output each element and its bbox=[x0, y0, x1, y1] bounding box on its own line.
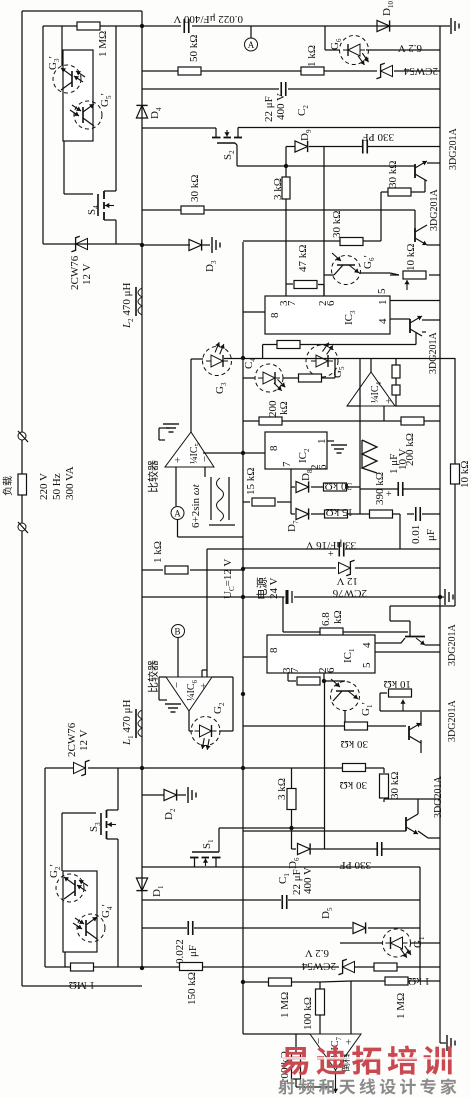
wire A down bbox=[177, 520, 179, 538]
IC IC1 box bbox=[267, 635, 375, 673]
resistor 15k D7 bbox=[325, 510, 348, 518]
svg-text:A: A bbox=[174, 509, 181, 519]
svg-text:+: + bbox=[383, 398, 395, 404]
svg-text:300 VA: 300 VA bbox=[64, 466, 76, 500]
resistor 47k bbox=[294, 281, 317, 289]
svg-text:kΩ: kΩ bbox=[278, 401, 290, 415]
transistor T5 3DG201A bbox=[405, 817, 407, 831]
resistor 15k2 bbox=[252, 498, 275, 506]
optocoupler box bottom bbox=[63, 871, 97, 952]
resistor IC1 bottom bbox=[297, 677, 320, 685]
resistor fb1 bbox=[392, 365, 400, 378]
wire v x=420 bbox=[419, 867, 421, 981]
wire box bottom stub bbox=[64, 952, 66, 967]
mosfet S1 bbox=[192, 851, 219, 853]
svg-text:3DG201A: 3DG201A bbox=[448, 128, 459, 170]
svg-text:1: 1 bbox=[377, 300, 389, 306]
wire S3 source down bbox=[117, 839, 119, 967]
wire IC5 minus down bbox=[204, 467, 206, 477]
svg-text:30 kΩ: 30 kΩ bbox=[325, 480, 352, 492]
wire S4 source bbox=[115, 220, 117, 244]
wire IC4 plus down bbox=[383, 406, 385, 421]
wire outer bottom bbox=[22, 985, 142, 987]
capacitor 0.022uF/400V bbox=[183, 19, 185, 33]
wire row y=597 bbox=[142, 596, 285, 598]
resistor 10k pot bbox=[403, 271, 426, 279]
svg-text:1 MΩ: 1 MΩ bbox=[69, 979, 95, 991]
optocoupler box top bbox=[63, 50, 93, 141]
svg-text:6.2 V: 6.2 V bbox=[305, 947, 329, 959]
source A circle bbox=[171, 507, 184, 520]
LED G1 bbox=[383, 929, 411, 957]
triangle wave icon bbox=[362, 440, 377, 473]
wire IC3 pin1 to bus bbox=[390, 300, 440, 302]
svg-text:1: 1 bbox=[316, 439, 328, 445]
wire v x=45 bottom bbox=[44, 768, 46, 967]
svg-text:G5′: G5′ bbox=[99, 93, 113, 107]
phototransistor G2p bbox=[56, 874, 84, 902]
terminal plug top bbox=[18, 432, 26, 440]
zener 2CW76 mid bbox=[339, 560, 355, 575]
node dot 243,982 bbox=[241, 980, 245, 984]
svg-text:0.022 μF/400 V: 0.022 μF/400 V bbox=[173, 13, 243, 25]
wire G3 left bbox=[191, 358, 203, 360]
node dot 324,681 bbox=[322, 679, 326, 683]
diode D10 bbox=[377, 20, 390, 31]
svg-text:7: 7 bbox=[281, 461, 293, 467]
diode D6 bbox=[298, 843, 311, 854]
wire row y=71 bbox=[142, 70, 178, 72]
svg-text:6: 6 bbox=[325, 667, 337, 673]
svg-text:3DG201A: 3DG201A bbox=[447, 700, 458, 742]
wire IC6 out bbox=[188, 711, 190, 731]
diode D8 bbox=[296, 481, 309, 492]
LED G6 bbox=[340, 36, 369, 65]
wire outer left bbox=[21, 11, 23, 986]
svg-text:8: 8 bbox=[269, 312, 281, 318]
svg-text:−: − bbox=[171, 682, 183, 688]
capacitor 330pF top bbox=[362, 140, 364, 154]
wire outer top bbox=[22, 10, 142, 12]
LED C4 bbox=[255, 364, 283, 392]
resistor 1k top bbox=[301, 67, 324, 75]
svg-text:G2′: G2′ bbox=[48, 864, 62, 878]
wire 330pF bot row bbox=[311, 848, 377, 850]
svg-text:22 μF: 22 μF bbox=[263, 96, 275, 122]
svg-text:10 V: 10 V bbox=[397, 448, 409, 470]
node dot 291,828 bbox=[289, 826, 293, 830]
wire IC1 pin5 right bbox=[375, 651, 440, 653]
ground D2 bbox=[188, 787, 196, 803]
ammeter A top bbox=[250, 26, 252, 38]
svg-text:10 kΩ: 10 kΩ bbox=[405, 244, 417, 271]
inductor L1 bbox=[138, 710, 142, 737]
wire row y=570 bbox=[142, 569, 163, 571]
wire row y=967 bbox=[45, 966, 72, 968]
phototransistor G4p bbox=[77, 914, 105, 942]
resistor 390k bbox=[370, 510, 393, 518]
wire D9 row y=146.5 bbox=[286, 146, 295, 148]
ground top right bbox=[440, 25, 450, 27]
wire IC5 out feedback bbox=[203, 452, 243, 454]
svg-text:−: − bbox=[355, 398, 367, 404]
wire IC4 minus down bbox=[359, 359, 361, 367]
resistor 10k right bbox=[451, 464, 460, 484]
wire 30k T1 row y=192 bbox=[381, 191, 389, 193]
node dot 243,597 bbox=[241, 595, 245, 599]
svg-text:30 kΩ: 30 kΩ bbox=[341, 738, 368, 750]
svg-text:12 V: 12 V bbox=[78, 729, 90, 751]
wire IC1 pin8 left bbox=[243, 656, 267, 658]
resistor 50k bbox=[178, 67, 201, 75]
LED G5 bbox=[306, 345, 338, 377]
LED G2 bbox=[191, 717, 220, 746]
svg-text:47 kΩ: 47 kΩ bbox=[297, 245, 309, 272]
resistor 3k bottom bbox=[287, 789, 296, 810]
svg-text:3 kΩ: 3 kΩ bbox=[272, 178, 284, 200]
svg-text:+: + bbox=[343, 1039, 355, 1045]
svg-text:100 kΩ: 100 kΩ bbox=[302, 997, 314, 1030]
wire row y=982 left bbox=[243, 981, 269, 983]
svg-text:+: + bbox=[172, 457, 184, 463]
resistor 1k bot bbox=[374, 963, 397, 971]
resistor 30k row768 bbox=[343, 764, 366, 772]
wire IC5 plus down bbox=[175, 467, 177, 506]
zener 2CW76 top bbox=[71, 236, 87, 251]
capacitor 0.01uF bbox=[415, 507, 417, 521]
zener 2CW54 top bbox=[376, 63, 392, 78]
meter B circle bbox=[172, 625, 185, 638]
transistor T1 3DG201A bbox=[414, 164, 416, 178]
wire v x=43 bbox=[42, 26, 44, 244]
resistor 200k left bbox=[259, 417, 282, 425]
wire v x=283 bbox=[282, 597, 284, 632]
label comparator cn bbox=[148, 460, 158, 492]
svg-text:330 PF: 330 PF bbox=[363, 131, 395, 143]
wire IC3 pin4 stub bbox=[390, 318, 410, 320]
svg-text:7: 7 bbox=[289, 667, 301, 673]
opamp IC6 bbox=[166, 677, 212, 711]
wire S3 gate bbox=[62, 812, 96, 814]
wire IC4 base row bbox=[347, 405, 360, 407]
zener 2CW54 bot bbox=[338, 959, 354, 974]
diode D2 bbox=[164, 789, 177, 800]
svg-text:1 MΩ: 1 MΩ bbox=[97, 31, 109, 57]
node dot 243,358 bbox=[241, 356, 245, 360]
transistor T2 3DG201A bbox=[414, 228, 416, 242]
svg-text:3DG201A: 3DG201A bbox=[429, 189, 440, 231]
svg-text:10 kΩ: 10 kΩ bbox=[384, 678, 411, 690]
capacitor 33uF bbox=[338, 543, 340, 557]
svg-text:μF: μF bbox=[187, 945, 199, 957]
wire row y=900 bbox=[142, 899, 281, 901]
svg-text:μF: μF bbox=[425, 529, 437, 541]
node dot at 142,26 bbox=[140, 24, 144, 28]
mosfet S4 bbox=[97, 194, 99, 216]
node dot 243,569 bbox=[241, 567, 245, 571]
svg-text:1 MΩ: 1 MΩ bbox=[395, 993, 407, 1019]
wire 47k right bbox=[318, 284, 324, 286]
svg-text:50 Hz: 50 Hz bbox=[51, 473, 63, 500]
svg-text:L2 470 μH: L2 470 μH bbox=[121, 282, 135, 329]
wire G6 branch bbox=[324, 26, 326, 50]
wire D8 row y=487 bbox=[291, 486, 295, 488]
resistor 10k T4 bbox=[389, 689, 412, 697]
wire S4 drain bbox=[115, 26, 117, 191]
wire row y=89 bbox=[142, 88, 279, 90]
ground IC5 bbox=[159, 439, 165, 441]
svg-text:30 kΩ: 30 kΩ bbox=[387, 161, 399, 188]
node dot 142,768 bbox=[140, 766, 144, 770]
resistor 30k T4row bbox=[345, 722, 368, 730]
wire row y=549 bbox=[207, 548, 338, 550]
svg-text:3DG201A: 3DG201A bbox=[447, 624, 458, 666]
svg-text:1 kΩ: 1 kΩ bbox=[306, 45, 318, 67]
svg-text:6.8: 6.8 bbox=[320, 612, 332, 626]
opamp IC5 bbox=[165, 432, 214, 467]
wire G1p down bbox=[344, 710, 346, 726]
mosfet S2 bbox=[217, 142, 235, 144]
svg-text:330 PF: 330 PF bbox=[340, 859, 372, 871]
svg-text:A: A bbox=[248, 40, 255, 50]
wire row y=928 bbox=[142, 927, 187, 929]
wire S2 gate down bbox=[235, 143, 237, 145]
capacitor 330pF bot bbox=[376, 842, 378, 856]
wire 20k left elbow bbox=[262, 345, 264, 359]
wire row y=981 bbox=[351, 980, 386, 982]
wire 15k row y=502 bbox=[243, 501, 250, 503]
wire T0 collector loop bbox=[415, 332, 417, 345]
wire row y=210 bbox=[142, 209, 184, 211]
svg-text:24 V: 24 V bbox=[268, 577, 280, 599]
wire IC3 pin8 bbox=[243, 311, 265, 313]
diode D3 bbox=[189, 239, 202, 250]
wire S1 gate up bbox=[218, 828, 220, 852]
wire G1 row y=942 bbox=[340, 942, 382, 944]
svg-text:−: − bbox=[199, 456, 211, 462]
svg-text:12 V: 12 V bbox=[81, 263, 93, 285]
svg-text:10 kΩ: 10 kΩ bbox=[459, 461, 471, 488]
wire C4 G5 row bbox=[243, 377, 255, 379]
wire row y=166 bbox=[237, 165, 415, 167]
wire S1 gate row y=827 bbox=[219, 827, 325, 829]
wire G6p leads bbox=[324, 274, 334, 276]
svg-text:3DG201A: 3DG201A bbox=[428, 332, 439, 374]
wire 1M row bbox=[43, 25, 78, 27]
wire v x=381 bbox=[380, 192, 382, 241]
diode D5 bbox=[353, 922, 366, 933]
sine icon bbox=[210, 477, 212, 520]
opamp IC4 bbox=[347, 372, 395, 406]
resistor 30k vert bbox=[380, 774, 389, 798]
capacitor C2 22uF/400V bbox=[280, 82, 282, 96]
resistor 20k bbox=[277, 341, 300, 349]
transistor T0 3DG201A bbox=[409, 319, 411, 333]
ground bottom right bbox=[440, 1042, 446, 1044]
svg-text:150 kΩ: 150 kΩ bbox=[186, 972, 198, 1005]
wire D7 row y=514 bbox=[291, 513, 295, 515]
label comparator2 cn bbox=[148, 660, 158, 692]
svg-text:0.022: 0.022 bbox=[174, 939, 186, 964]
wire 10k loop top bbox=[390, 605, 455, 607]
ground mid right bbox=[440, 596, 444, 598]
resistor 1k mid bbox=[165, 566, 188, 574]
wire row y=26 with cap bbox=[142, 25, 181, 27]
phototransistor G3p bbox=[53, 65, 81, 93]
resistor 30k row241 bbox=[340, 238, 363, 246]
svg-text:400 V: 400 V bbox=[275, 93, 287, 120]
svg-text:1 MΩ: 1 MΩ bbox=[279, 992, 291, 1018]
IC IC3 box bbox=[265, 296, 390, 334]
wire row y=831 bbox=[243, 830, 406, 832]
svg-text:4: 4 bbox=[361, 642, 373, 648]
svg-text:7: 7 bbox=[286, 300, 298, 306]
wire IC2 pins down bbox=[290, 469, 292, 514]
resistor 30k row210 bbox=[181, 206, 204, 214]
resistor fb2 bbox=[392, 385, 400, 395]
LED G6p bbox=[332, 256, 361, 285]
svg-text:6: 6 bbox=[317, 464, 329, 470]
svg-text:B: B bbox=[175, 627, 181, 637]
wire IC7 out arrow bbox=[335, 1070, 337, 1093]
resistor 200k right bbox=[401, 417, 424, 425]
svg-text:−: − bbox=[313, 1038, 325, 1044]
wire row y=867 S1 source bbox=[142, 866, 420, 868]
wire IC2 left bbox=[243, 452, 265, 454]
wire IC7 minus row bbox=[243, 1033, 310, 1035]
wire IC4 out bbox=[370, 358, 372, 372]
svg-text:2CW76: 2CW76 bbox=[66, 722, 78, 757]
photodiode G1p bbox=[331, 682, 360, 711]
wire S2 drain row y=128 bbox=[142, 127, 216, 129]
svg-text:kΩ: kΩ bbox=[332, 610, 344, 624]
terminal plug bottom bbox=[18, 523, 26, 531]
diode D4 on rail bbox=[136, 105, 147, 118]
wire S3 drain up bbox=[117, 768, 119, 810]
node dot 142,245 bbox=[140, 243, 144, 247]
wire IC2 pin1 gnd bbox=[327, 440, 334, 442]
svg-text:15 kΩ: 15 kΩ bbox=[245, 468, 257, 495]
svg-text:G4′: G4′ bbox=[100, 904, 114, 918]
wire IC1 pins down bbox=[287, 673, 289, 681]
svg-text:2CW76: 2CW76 bbox=[69, 255, 81, 290]
wire v x=62 to G3p bbox=[61, 26, 63, 66]
wire S2 right to row127 bbox=[238, 127, 440, 129]
wire box to gate S4 bbox=[63, 141, 65, 194]
node dot 243,453 bbox=[241, 451, 245, 455]
wire IC3 pin37 up bbox=[285, 284, 287, 296]
svg-text:1 kΩ: 1 kΩ bbox=[152, 541, 164, 563]
wire G3 row y=358 bbox=[224, 358, 455, 360]
resistor 100k left b bbox=[292, 1053, 301, 1079]
resistor 1M left b bbox=[269, 978, 292, 986]
phototransistor G5p bbox=[74, 101, 102, 129]
wire IC6 fb bbox=[212, 676, 233, 678]
node dot 440,597 bbox=[438, 595, 442, 599]
wire bus mid rail x=243 bbox=[242, 242, 244, 1034]
wire G1p top bbox=[324, 680, 345, 682]
svg-text:UC=12 V: UC=12 V bbox=[222, 559, 236, 599]
wire bus right rail x=440 bbox=[439, 26, 441, 1043]
wire row y=537 bbox=[178, 536, 244, 538]
resistor 6.8k bbox=[320, 628, 343, 636]
resistor 1M right bbox=[385, 977, 408, 985]
svg-text:G6′: G6′ bbox=[362, 255, 376, 269]
ground IC6 bbox=[159, 676, 166, 678]
wire D6 bbox=[291, 828, 293, 849]
capacitor C1 22uF400V bbox=[281, 895, 283, 909]
svg-text:220 V: 220 V bbox=[38, 473, 50, 500]
svg-text:15 kΩ: 15 kΩ bbox=[326, 506, 353, 518]
wire row y=799 bbox=[384, 798, 418, 800]
wire IC4 fb right bbox=[395, 358, 397, 365]
wire B down bbox=[177, 638, 179, 678]
LED G3 bbox=[203, 347, 232, 376]
wire row y=421 bbox=[243, 420, 259, 422]
label inverter cn bbox=[341, 1055, 349, 1072]
svg-text:4: 4 bbox=[377, 318, 389, 324]
node dot 243,726 bbox=[241, 692, 245, 696]
wire IC7 plus up bbox=[350, 981, 352, 1034]
wire row y=244 bbox=[43, 243, 142, 245]
svg-text:12 V: 12 V bbox=[336, 575, 358, 587]
battery 24V bbox=[286, 590, 289, 604]
svg-text:50 kΩ: 50 kΩ bbox=[188, 35, 200, 62]
wire IC6 plus up bbox=[201, 670, 203, 677]
svg-text:5: 5 bbox=[376, 288, 388, 294]
load box 负载 bbox=[18, 474, 27, 495]
resistor 1M bot bbox=[71, 963, 94, 971]
svg-text:6: 6 bbox=[325, 300, 337, 306]
svg-text:30 kΩ: 30 kΩ bbox=[189, 175, 201, 202]
ground right of D3 bbox=[202, 244, 210, 246]
resistor 30k T1 bbox=[388, 188, 411, 196]
node dot 286,166 bbox=[284, 164, 288, 168]
svg-text:+: + bbox=[386, 489, 392, 500]
wire row y=726 bbox=[243, 725, 345, 727]
diode D1 on rail bbox=[136, 878, 147, 891]
svg-text:5: 5 bbox=[361, 662, 373, 668]
opamp IC7 bbox=[310, 1034, 361, 1070]
wire v x=324 down bbox=[324, 681, 326, 849]
svg-text:+: + bbox=[198, 683, 210, 689]
transistor T4 3DG201A bbox=[408, 726, 410, 740]
watermark logo bbox=[281, 1046, 452, 1075]
capacitor 1uF bbox=[397, 482, 399, 496]
svg-text:L1 470 μH: L1 470 μH bbox=[121, 699, 135, 746]
diode D9 bbox=[295, 141, 308, 152]
mosfet S3 bbox=[100, 813, 102, 835]
wire 20k row y=344 bbox=[263, 344, 278, 346]
resistor 3k top bbox=[282, 177, 290, 199]
wire 6.8k row bbox=[283, 631, 320, 633]
svg-text:G1′: G1′ bbox=[360, 702, 374, 716]
svg-text:30 kΩ: 30 kΩ bbox=[389, 772, 401, 799]
resistor 150k bbox=[180, 963, 203, 971]
resistor 30k D8 bbox=[324, 483, 347, 491]
label 24V supply bbox=[256, 577, 267, 598]
resistor 20k2 bbox=[299, 374, 322, 382]
wire row y=768 bbox=[45, 767, 73, 769]
svg-text:2CW54: 2CW54 bbox=[403, 65, 438, 77]
resistor 100k mid bbox=[316, 989, 325, 1015]
wire 286 corner bbox=[285, 147, 287, 167]
wire 30kv bottom bbox=[383, 768, 385, 773]
node dot 243,768 bbox=[241, 766, 245, 770]
svg-text:6+2sin ωt: 6+2sin ωt bbox=[190, 483, 202, 528]
svg-text:3DG201A: 3DG201A bbox=[433, 776, 444, 818]
label 负载 bbox=[3, 476, 12, 495]
